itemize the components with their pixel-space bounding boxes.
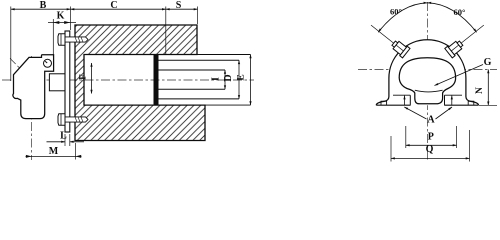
leader G — [435, 65, 484, 86]
dim M — [75, 143, 77, 160]
dim N — [479, 104, 497, 106]
svg-text:S: S — [176, 0, 182, 11]
bar lines extending right — [197, 55, 251, 106]
clamp body block (hatched section) — [75, 25, 205, 141]
flange plate — [65, 31, 70, 132]
dim K — [52, 19, 54, 57]
ext lines top — [11, 7, 198, 82]
neck lines connecting foot to flange — [49, 74, 65, 91]
svg-text:C: C — [110, 0, 117, 11]
svg-text:F: F — [78, 74, 88, 80]
svg-text:N: N — [475, 87, 485, 94]
centerlines — [426, 2, 428, 160]
dim P — [406, 126, 457, 148]
label S — [174, 1, 183, 8]
leader A right — [436, 107, 453, 119]
centerline horizontal left view — [2, 79, 254, 81]
dim Q — [391, 130, 470, 162]
svg-text:60°: 60° — [390, 7, 402, 17]
svg-text:60°: 60° — [454, 7, 466, 17]
arrow slot ledge left — [404, 96, 406, 106]
svg-text:P: P — [428, 132, 434, 143]
60 degree extension rays — [371, 25, 484, 54]
svg-text:I: I — [211, 77, 222, 81]
svg-text:D: D — [223, 74, 234, 81]
bolt bottom — [58, 114, 88, 125]
dim B — [11, 8, 71, 10]
centerline 45deg of swivel foot — [10, 58, 37, 85]
svg-text:K: K — [57, 11, 65, 22]
svg-text:L: L — [60, 131, 67, 142]
pivot pin circle — [44, 59, 52, 67]
svg-text:Q: Q — [426, 144, 434, 155]
dim E — [250, 55, 252, 106]
outer body — [376, 40, 478, 106]
svg-text:G: G — [484, 57, 492, 68]
dim S — [166, 8, 198, 10]
dim I — [224, 70, 226, 89]
inner cavity: dome + cup — [399, 58, 455, 104]
dim C — [71, 8, 166, 10]
bolt top (hex head + shaft into block) — [58, 34, 88, 45]
feet notches — [381, 101, 474, 105]
centerline vertical of swivel foot — [31, 56, 33, 160]
svg-text:A: A — [427, 115, 435, 126]
bolts at +-45deg — [390, 38, 410, 57]
leader A left — [404, 107, 426, 119]
60deg dimension arcs — [378, 3, 427, 32]
clamped bar end (solid black) — [154, 55, 159, 106]
label C — [109, 1, 119, 8]
dim F (inside bore) — [91, 63, 93, 94]
label B — [38, 1, 48, 8]
swivel foot (boot-shaped part at far left) — [13, 55, 54, 119]
arrow slot ledge right — [451, 96, 453, 106]
svg-text:M: M — [49, 146, 59, 157]
dim D — [238, 60, 240, 99]
dim L — [65, 134, 70, 146]
svg-text:E: E — [237, 74, 247, 80]
bottom edge — [376, 104, 478, 106]
svg-text:B: B — [40, 0, 47, 11]
cup top edge — [415, 90, 443, 92]
slot walls + ledges — [410, 95, 444, 105]
